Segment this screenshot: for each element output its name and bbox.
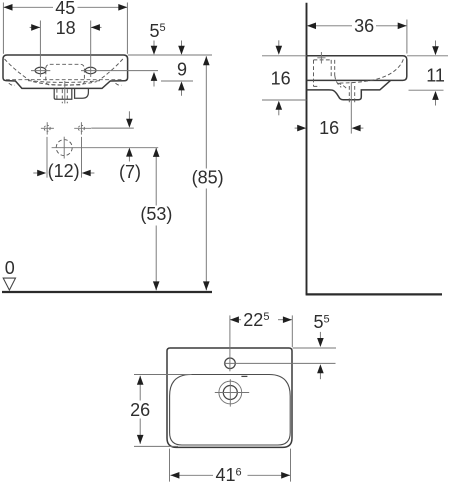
svg-text:36: 36 bbox=[354, 16, 374, 36]
svg-text:26: 26 bbox=[130, 400, 150, 420]
svg-text:11: 11 bbox=[426, 65, 445, 85]
svg-text:(12): (12) bbox=[48, 161, 80, 181]
svg-text:18: 18 bbox=[56, 18, 76, 38]
svg-text:16: 16 bbox=[319, 118, 339, 138]
svg-text:9: 9 bbox=[177, 59, 187, 79]
svg-text:45: 45 bbox=[55, 0, 75, 18]
svg-text:(85): (85) bbox=[192, 167, 224, 187]
svg-text:0: 0 bbox=[5, 258, 15, 278]
svg-text:(53): (53) bbox=[140, 204, 172, 224]
svg-text:16: 16 bbox=[271, 68, 291, 88]
svg-text:(7): (7) bbox=[119, 162, 141, 182]
